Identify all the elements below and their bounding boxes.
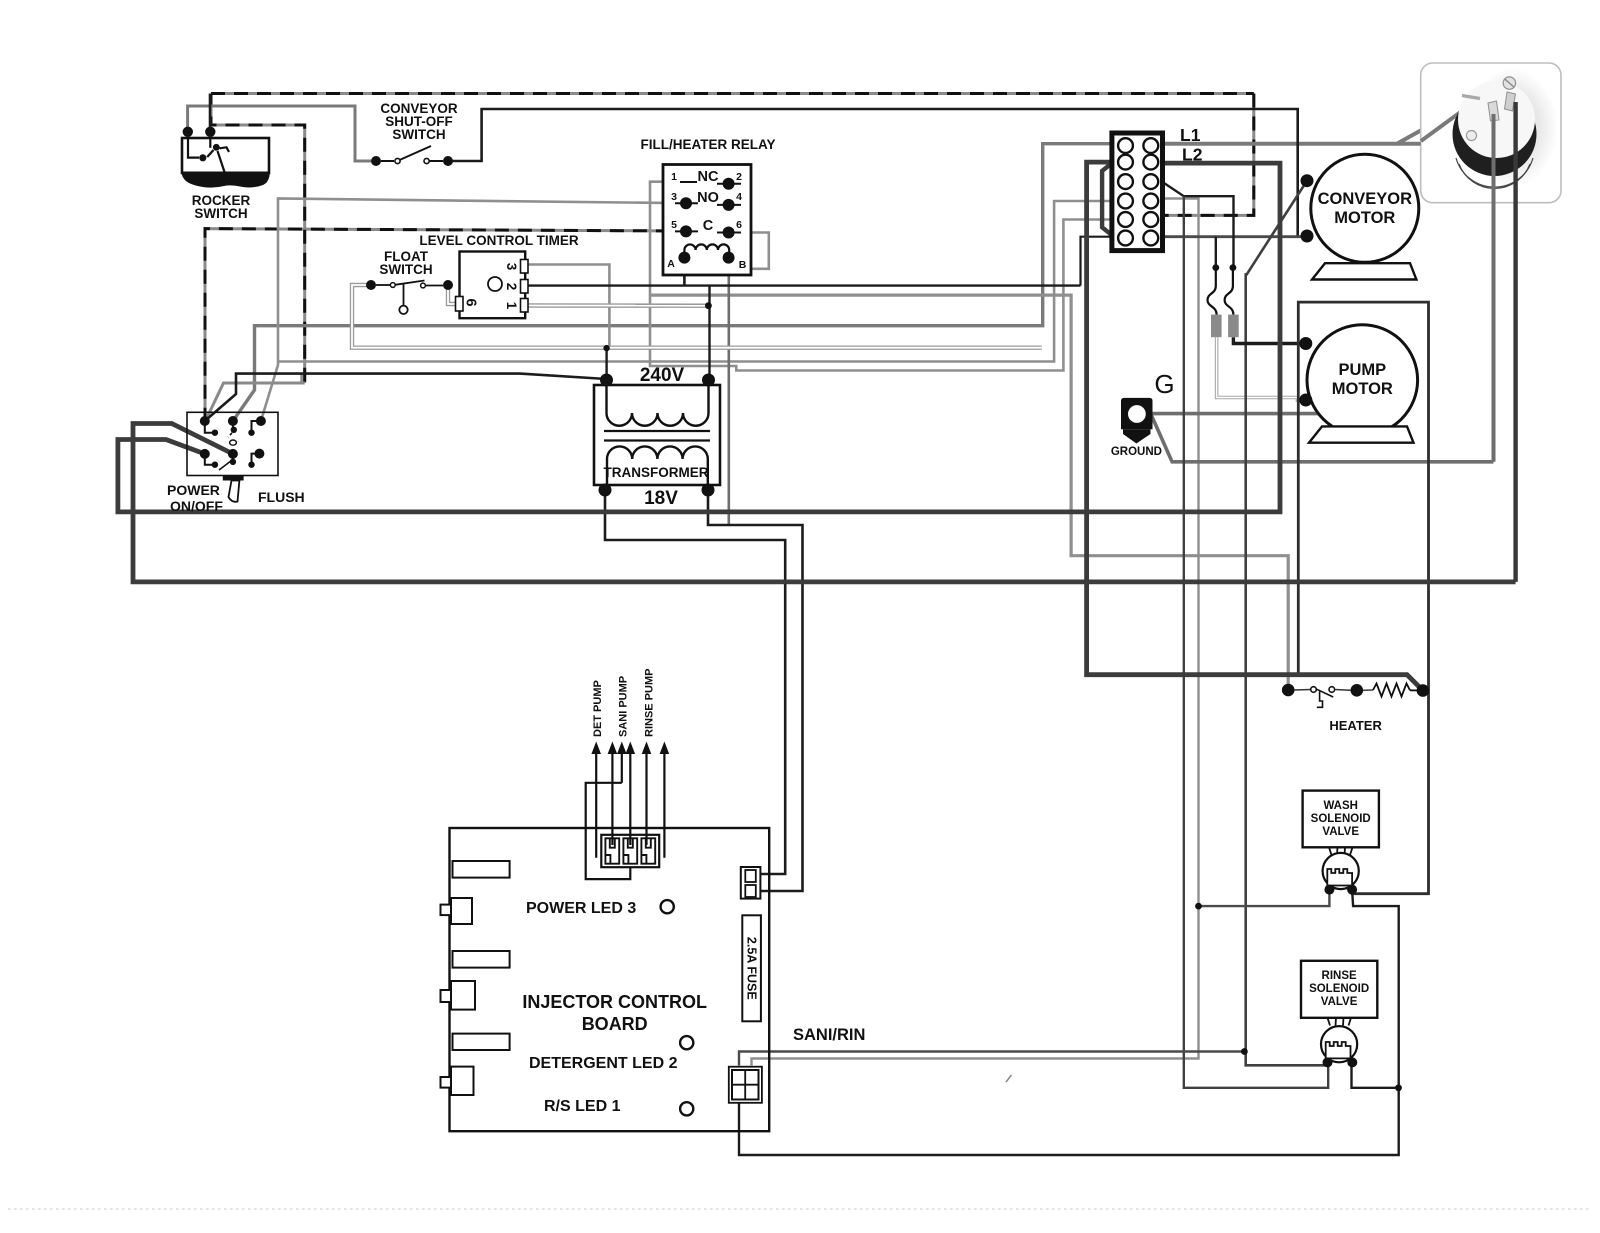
svg-text:2: 2 xyxy=(504,283,519,291)
wire dashed power switch pin1 riser (gray underlay) xyxy=(205,229,686,422)
wire dashed left loop (black dashes) xyxy=(211,94,305,384)
wire timer tab2 to relay A xyxy=(526,284,1081,286)
SANI/RIN connector xyxy=(729,1067,762,1103)
wire terminal row3-right to fuse2 xyxy=(1163,182,1234,268)
svg-text:3: 3 xyxy=(504,263,519,271)
wire plug ground cord xyxy=(1492,114,1496,462)
wire L2 vertical to heater xyxy=(1087,162,1423,690)
wire plug hot cord xyxy=(1513,102,1517,582)
svg-text:MOTOR: MOTOR xyxy=(1334,209,1395,227)
wire terminal left bracket jumper xyxy=(1102,163,1112,235)
svg-text:VALVE: VALVE xyxy=(1322,826,1359,838)
svg-text:2.5A FUSE: 2.5A FUSE xyxy=(744,937,758,1000)
wire power pin1 gray slant to dashed net xyxy=(205,383,305,422)
pump arrows DET/SANI/RINSE xyxy=(586,669,670,880)
wire dashed top trunk (gray underlay) xyxy=(211,92,1254,95)
wire conveyor-switch to conveyor motor xyxy=(448,109,1298,237)
power on/off switch xyxy=(167,412,305,514)
power plug photo xyxy=(1397,63,1561,203)
svg-text:6: 6 xyxy=(736,219,742,231)
svg-text:SWITCH: SWITCH xyxy=(379,262,432,277)
svg-text:PUMP: PUMP xyxy=(1338,361,1386,379)
wire heater enclosure loop xyxy=(1298,302,1428,894)
svg-text:FLUSH: FLUSH xyxy=(258,489,305,505)
svg-text:R/S LED 1: R/S LED 1 xyxy=(544,1098,621,1115)
svg-text:INJECTOR CONTROL: INJECTOR CONTROL xyxy=(522,992,707,1012)
conveyor shut-off switch xyxy=(371,101,458,166)
wire main trunk L2 to power switch xyxy=(118,163,1280,512)
wire SANI/RIN upper to conveyor net xyxy=(739,1052,1244,1066)
level control timer xyxy=(419,233,579,318)
wire fuse2 to pump top dot xyxy=(1233,337,1305,343)
svg-text:LEVEL CONTROL TIMER: LEVEL CONTROL TIMER xyxy=(419,233,579,248)
pump connector block on board xyxy=(601,835,659,867)
board 2-pin connector xyxy=(741,867,761,899)
transformer xyxy=(594,365,720,509)
conveyor motor xyxy=(1301,154,1419,279)
wire row6-left drop xyxy=(1081,237,1112,286)
svg-text:DETERGENT LED 2: DETERGENT LED 2 xyxy=(529,1055,678,1072)
svg-text:A: A xyxy=(667,258,675,270)
float switch xyxy=(366,249,453,314)
svg-text:4: 4 xyxy=(736,191,742,203)
rocker switch xyxy=(182,127,270,221)
svg-text:POWER: POWER xyxy=(167,482,220,498)
svg-text:GROUND: GROUND xyxy=(1111,446,1162,458)
wire ground to pump frame xyxy=(1151,412,1322,416)
svg-text:2: 2 xyxy=(736,171,742,183)
wire power-switch mid pin to L1 trunk xyxy=(233,144,1112,421)
wire L1 terminal right to plug xyxy=(1163,98,1480,144)
wire relay pin1 loop to terminal row5-left xyxy=(650,182,1112,371)
wire relay pin6 to B loop xyxy=(729,233,769,269)
svg-text:240V: 240V xyxy=(640,365,685,386)
wire dashed to heater feed (gray underlay) xyxy=(300,374,303,383)
svg-text:MOTOR: MOTOR xyxy=(1332,380,1393,398)
wire ground to plug xyxy=(1151,414,1494,462)
svg-text:B: B xyxy=(739,259,747,271)
svg-text:DET PUMP: DET PUMP xyxy=(592,680,604,737)
svg-text:C: C xyxy=(703,218,714,234)
svg-text:POWER LED 3: POWER LED 3 xyxy=(526,900,636,917)
wire timer pin1 net to 240V right pin xyxy=(708,286,710,380)
svg-text:SWITCH: SWITCH xyxy=(194,206,247,221)
svg-text:NC: NC xyxy=(698,169,719,185)
wire dashed power pin1 riser (black dashes) xyxy=(205,229,686,422)
stray scan speck xyxy=(1006,1075,1012,1082)
terminal block L1 L2 xyxy=(1112,125,1203,251)
svg-text:FILL/HEATER RELAY: FILL/HEATER RELAY xyxy=(640,137,775,152)
wash solenoid valve xyxy=(1303,791,1379,895)
svg-text:NO: NO xyxy=(697,190,719,206)
wire V1 row3 to rinse left xyxy=(1184,196,1328,1088)
svg-text:1: 1 xyxy=(504,302,519,310)
2.5A fuse xyxy=(742,915,761,1021)
wire timer tab3 to transformer junction xyxy=(526,265,609,349)
svg-text:SWITCH: SWITCH xyxy=(392,127,445,142)
injector control board xyxy=(441,828,866,1131)
svg-text:5: 5 xyxy=(671,219,677,231)
wire dashed right drop to terminal row5 (gray underlay) xyxy=(1163,94,1254,216)
wire 18V right to board connector xyxy=(708,490,803,891)
wire float-switch hollow run xyxy=(352,285,1042,348)
fill/heater relay xyxy=(640,137,775,275)
svg-text:SANI PUMP: SANI PUMP xyxy=(618,676,630,737)
wire wash right to rinse right and bottom xyxy=(739,890,1399,1155)
svg-text:SOLENOID: SOLENOID xyxy=(1311,813,1371,825)
wire dashed left loop (gray underlay) xyxy=(211,94,305,384)
rinse solenoid valve xyxy=(1301,961,1377,1068)
svg-text:SANI/RIN: SANI/RIN xyxy=(793,1026,865,1044)
wire trunk row4-left to power area xyxy=(278,201,1112,362)
wire wash left to V2 xyxy=(1199,890,1330,907)
wire power-switch right pin to relay pin3 xyxy=(261,199,686,422)
wire main trunk neutral to plug xyxy=(133,424,1516,582)
svg-text:CONVEYOR: CONVEYOR xyxy=(1318,190,1413,208)
wire transformer junction to 240V left pin xyxy=(605,348,607,380)
svg-text:G: G xyxy=(1154,369,1174,399)
ground symbol xyxy=(1111,369,1175,458)
wire fuse1 to pump lower dot (light) xyxy=(1217,337,1306,400)
fuse F2 xyxy=(1225,264,1239,337)
svg-text:RINSE PUMP: RINSE PUMP xyxy=(644,669,656,737)
wire relay B to 18V right run xyxy=(727,258,730,525)
wire rocker to conveyor-switch (gray) xyxy=(188,106,371,161)
wire rocker right dot riser xyxy=(209,94,212,133)
svg-text:6: 6 xyxy=(463,298,479,306)
heater xyxy=(1282,684,1429,734)
wire rinse right branch xyxy=(1352,1062,1399,1087)
svg-text:BOARD: BOARD xyxy=(582,1014,648,1034)
wire conveyor top dot diagonal xyxy=(1246,181,1328,1066)
wire dashed right drop (black dashes) xyxy=(1163,94,1254,216)
wire heater feed from relay pin1 net xyxy=(650,295,1288,688)
wire 18V left to board connector xyxy=(605,490,785,874)
svg-text:18V: 18V xyxy=(644,488,678,509)
svg-text:TRANSFORMER: TRANSFORMER xyxy=(604,465,709,480)
pump motor xyxy=(1299,325,1417,443)
wire fuse1 to row6 line xyxy=(1215,237,1217,268)
svg-text:HEATER: HEATER xyxy=(1329,718,1382,733)
wire timer tab1 hollow xyxy=(526,303,708,308)
svg-text:1: 1 xyxy=(671,171,677,183)
svg-text:VALVE: VALVE xyxy=(1321,996,1358,1008)
svg-text:SOLENOID: SOLENOID xyxy=(1309,983,1369,995)
svg-text:L2: L2 xyxy=(1182,145,1203,165)
wire float right to timer tab6 xyxy=(448,285,460,304)
svg-text:3: 3 xyxy=(671,191,677,203)
svg-text:RINSE: RINSE xyxy=(1322,970,1357,982)
fuse F1 xyxy=(1208,264,1222,337)
footer dotted separator xyxy=(8,1208,1592,1210)
wire terminal row6-right to conveyor motor lower dot xyxy=(1163,235,1308,238)
svg-text:L1: L1 xyxy=(1180,125,1201,145)
svg-text:WASH: WASH xyxy=(1323,800,1358,812)
wire dashed top trunk (black dashes) xyxy=(211,92,1254,95)
svg-text:ON/OFF: ON/OFF xyxy=(170,498,223,514)
wire row4-right down to SANI/RIN lower xyxy=(752,199,1199,1066)
wire power pin1 to 240V right xyxy=(205,374,607,421)
